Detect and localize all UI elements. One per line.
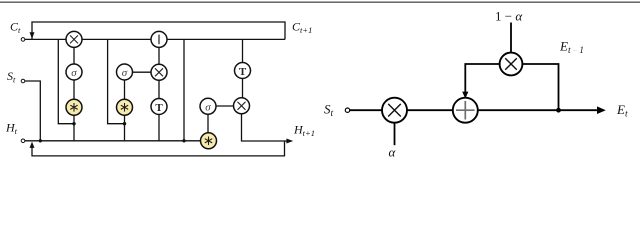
svg-text:σ: σ <box>122 67 128 79</box>
ast1 (yellow) <box>66 99 82 115</box>
svg-text:1 − α: 1 − α <box>495 9 523 24</box>
wire: loop up from dot <box>522 64 558 110</box>
wire: otimes3 down and right to H output <box>242 114 288 141</box>
wire: otimesR1 to oplus <box>407 109 453 111</box>
wire: gate column 1 <box>73 47 75 64</box>
junction dot J1 <box>72 122 75 125</box>
svg-text:T: T <box>155 102 163 114</box>
arrow E_t output <box>597 106 606 114</box>
svg-text:σ: σ <box>71 67 77 79</box>
wire: vertical x184 C to H <box>183 39 185 140</box>
T1 (tanh center) <box>151 99 167 115</box>
ast3 (yellow) <box>201 133 217 149</box>
arrow into oplus top <box>462 92 468 99</box>
wire: otimes2 down to T1 <box>158 80 160 98</box>
wire: oplus to E_t arrow <box>478 109 598 111</box>
junction dot on H line at x40 <box>39 139 42 142</box>
otimesR1 (alpha mult) <box>382 98 407 123</box>
wire: C row to T2 <box>242 39 244 62</box>
node H_t <box>21 139 25 143</box>
wire: plus circle down to otimes2 <box>158 47 160 64</box>
wire: T1 down to H line <box>158 115 160 141</box>
wire: H feedback loop <box>32 141 285 156</box>
otimes U1 (forget gate mult) <box>66 31 82 47</box>
oplus (adder) <box>453 98 478 123</box>
wire: gate column 2 <box>124 80 126 99</box>
sigma1 <box>66 64 82 80</box>
plus/identity circle on C row <box>151 31 167 47</box>
arrow H output <box>286 139 293 144</box>
wire: H input line <box>25 140 201 142</box>
top rule <box>0 1 640 3</box>
wire: C row line <box>25 38 285 40</box>
arrow into C row <box>30 32 35 39</box>
wire: C recurrence top line <box>32 22 285 39</box>
svg-text:Ct+1: Ct+1 <box>292 20 312 36</box>
svg-text:α: α <box>389 145 397 159</box>
junction dot J2 <box>123 122 126 125</box>
svg-text:Et−1: Et−1 <box>559 39 584 57</box>
junction dot on output line <box>556 108 561 113</box>
wire: sigma2 to otimes2 <box>133 71 152 73</box>
otimes3 (output gate mult) <box>234 98 250 114</box>
wire: peephole vertical x58 <box>58 39 74 123</box>
otimes2 <box>151 64 167 80</box>
node S_t <box>21 79 25 83</box>
sigma2 <box>117 64 133 80</box>
otimesR2 (1-alpha mult) <box>500 53 523 76</box>
wire: alpha stub <box>394 123 396 146</box>
wire: peephole vertical x107.6 <box>108 39 125 123</box>
sigma3 <box>200 98 216 114</box>
svg-text:Et: Et <box>616 102 628 120</box>
T2 (tanh upper right) <box>235 63 251 79</box>
wire: sigma3 to otimes3 <box>216 105 234 107</box>
junction dot on H line at x184 <box>182 139 185 142</box>
wire: S_t to otimesR1 <box>350 109 382 111</box>
svg-text:Ct: Ct <box>10 20 21 36</box>
svg-text:σ: σ <box>205 101 211 113</box>
ast2 (yellow) <box>117 99 133 115</box>
svg-text:Ht: Ht <box>5 121 18 137</box>
wire: S tap down to H line <box>25 81 40 141</box>
svg-text:St: St <box>7 69 16 85</box>
svg-text:St: St <box>324 102 334 120</box>
wire: T2 down to otimes3 <box>242 79 244 98</box>
arrow H feedback up <box>30 142 35 148</box>
wire: 1-alpha stub <box>510 23 512 53</box>
svg-text:Ht+1: Ht+1 <box>293 123 315 139</box>
node C_t <box>21 38 25 42</box>
svg-text:T: T <box>239 66 247 78</box>
wire: otimesR2 left to oplus top <box>465 64 499 93</box>
wire: sigma3 down to ast3 <box>207 114 209 133</box>
node S_t (right) <box>345 108 349 112</box>
